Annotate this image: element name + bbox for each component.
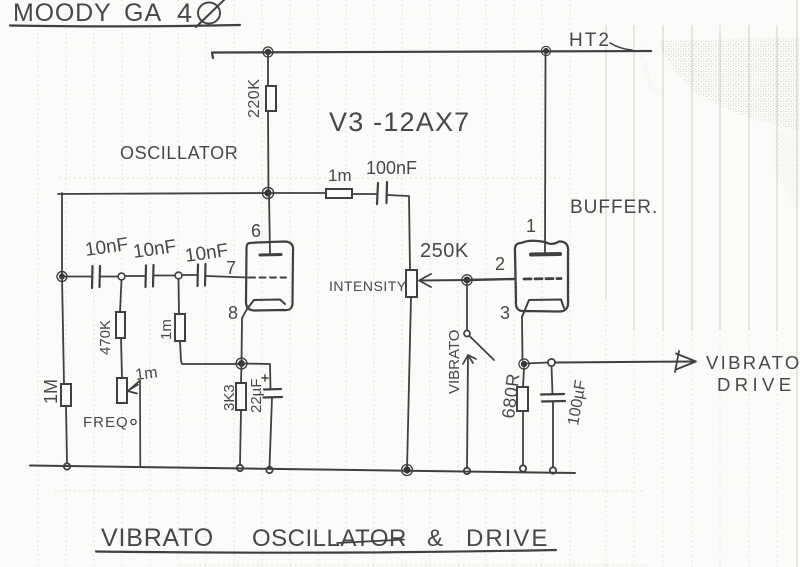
wire 220K to oscillator plate node	[267, 111, 270, 193]
label VIBRATO DRIVE	[706, 352, 800, 395]
wire node A to cap2	[125, 275, 145, 277]
wire switch to ground rail	[467, 357, 468, 468]
junction 22uF ground	[266, 467, 272, 473]
svg-text:VIBRATO: VIBRATO	[101, 524, 214, 552]
capacitor 10nF (second)	[132, 236, 178, 287]
wire wiper node down to vibrato switch	[466, 284, 468, 330]
wire 22uF to ground rail	[270, 398, 273, 468]
resistor 1M	[41, 379, 71, 406]
svg-text:DRIVE: DRIVE	[717, 374, 796, 395]
svg-text:4: 4	[177, 0, 192, 28]
svg-text:1: 1	[526, 216, 536, 236]
capacitor 10nF (first)	[84, 234, 130, 288]
wire 1m to 100nF	[352, 193, 376, 195]
wire cap2 to node B	[154, 275, 175, 277]
wire node B to cap3	[182, 274, 197, 276]
wire cathode V3a down	[242, 309, 248, 363]
svg-text:3K3: 3K3	[221, 384, 238, 411]
wire HT2 top rail	[212, 51, 651, 58]
svg-text:V3 -12AX7: V3 -12AX7	[329, 107, 470, 137]
FREQ degree mark	[131, 419, 136, 424]
svg-text:2: 2	[495, 254, 505, 274]
potentiometer 250K INTENSITY	[329, 240, 469, 297]
capacitor 100nF	[366, 158, 417, 204]
wire plate rail	[58, 193, 268, 194]
title MOODY GA 40	[10, 0, 240, 28]
svg-text:&: &	[427, 525, 443, 552]
wire node A down to 470K	[120, 280, 122, 312]
title VIBRATO OSCILLATOR DRIVE	[96, 524, 556, 553]
node B (junction circle)	[175, 272, 182, 279]
svg-text:OSCILLATOR: OSCILLATOR	[252, 525, 407, 552]
svg-text:8: 8	[228, 303, 238, 323]
capacitor 100uF	[541, 366, 590, 427]
wiper arrow into 250K	[419, 274, 467, 287]
junction left caps node	[57, 272, 67, 282]
svg-text:6: 6	[251, 221, 261, 241]
wire 1M to ground rail	[66, 406, 67, 463]
capacitor 22uF	[242, 364, 283, 414]
wire cap1 to node A	[100, 276, 118, 278]
wire 470K down to FREQ pot	[121, 338, 122, 378]
resistor 680R	[498, 368, 528, 419]
junction plate node	[262, 187, 273, 198]
svg-text:220K: 220K	[246, 79, 263, 118]
svg-text:470K: 470K	[97, 320, 114, 355]
wire 1m down and right to cathode node	[180, 341, 238, 364]
potentiometer 1M FREQ	[83, 364, 159, 431]
junction top rail / 220K	[263, 47, 273, 57]
wire 680R to ground rail	[522, 411, 524, 465]
svg-text:250K: 250K	[420, 240, 469, 262]
resistor 220K	[246, 79, 276, 118]
resistor 1m (grid feed)	[326, 166, 352, 198]
svg-text:HT2: HT2	[569, 30, 611, 51]
node 100uF top (junction circle)	[548, 359, 555, 366]
svg-text:22µF: 22µF	[248, 379, 265, 414]
wiper arrow into FREQ pot	[128, 381, 141, 468]
wire 100nF to intensity pot	[387, 195, 410, 270]
wire 100uF to ground rail	[552, 402, 554, 468]
junction output node	[519, 359, 529, 369]
wire cap3 to grid pin 7	[206, 276, 248, 278]
svg-text:FREQ: FREQ	[83, 414, 129, 431]
junction 3K3 ground	[237, 465, 243, 471]
wire ground rail	[30, 466, 575, 474]
switch VIBRATO	[446, 330, 494, 394]
wire left node down to 1M	[62, 277, 64, 385]
wire left node to cap1	[62, 276, 92, 278]
svg-text:1m: 1m	[328, 166, 352, 185]
resistor 1m (cathode bias feed)	[158, 314, 185, 341]
wire cathode V3b down to output node	[521, 317, 524, 360]
wire 250K pot down to ground rail	[407, 297, 411, 470]
svg-text:GA: GA	[124, 0, 162, 27]
svg-text:1m: 1m	[158, 319, 175, 340]
svg-text:1M: 1M	[41, 379, 61, 404]
arrowhead vibrato drive	[675, 351, 696, 372]
junction top rail / buffer plate	[541, 46, 550, 55]
svg-text:VIBRATO: VIBRATO	[446, 330, 463, 394]
junction cathode node	[236, 358, 247, 369]
svg-text:3: 3	[500, 303, 510, 323]
svg-text:INTENSITY: INTENSITY	[329, 278, 407, 294]
svg-text:1m: 1m	[134, 364, 158, 384]
wire output node to 100uF node	[527, 363, 548, 364]
junction switch ground	[464, 468, 470, 474]
tube V3b buffer triode	[515, 51, 568, 317]
wire vibrato drive output	[555, 362, 694, 363]
wire plate node to 1m grid resistor	[268, 192, 326, 194]
net HT2	[569, 30, 632, 51]
wire node B down to 1m	[178, 279, 181, 314]
svg-text:DRIVE: DRIVE	[466, 525, 549, 552]
junction middle ground	[402, 465, 413, 476]
wire left feedback rail	[61, 193, 63, 276]
capacitor 10nF (third)	[184, 240, 230, 286]
resistor 3K3	[221, 364, 246, 412]
tube V3a oscillator triode	[246, 193, 293, 311]
junction wiper node	[462, 275, 472, 285]
junction 100uF ground	[550, 467, 556, 473]
wire top rail to 220K	[267, 52, 269, 86]
svg-text:MOODY: MOODY	[13, 0, 111, 27]
junction 1M ground	[64, 463, 70, 469]
resistor 470K	[97, 312, 125, 355]
node A (junction circle)	[118, 273, 125, 280]
wire wiper node to grid pin 2	[467, 279, 514, 280]
svg-text:VIBRATO: VIBRATO	[706, 352, 800, 373]
svg-text:OSCILLATOR: OSCILLATOR	[120, 143, 238, 163]
junction 680R ground	[520, 465, 526, 471]
svg-text:BUFFER.: BUFFER.	[570, 197, 658, 218]
svg-text:100nF: 100nF	[366, 158, 417, 178]
wire 3K3 to ground rail	[240, 410, 241, 465]
